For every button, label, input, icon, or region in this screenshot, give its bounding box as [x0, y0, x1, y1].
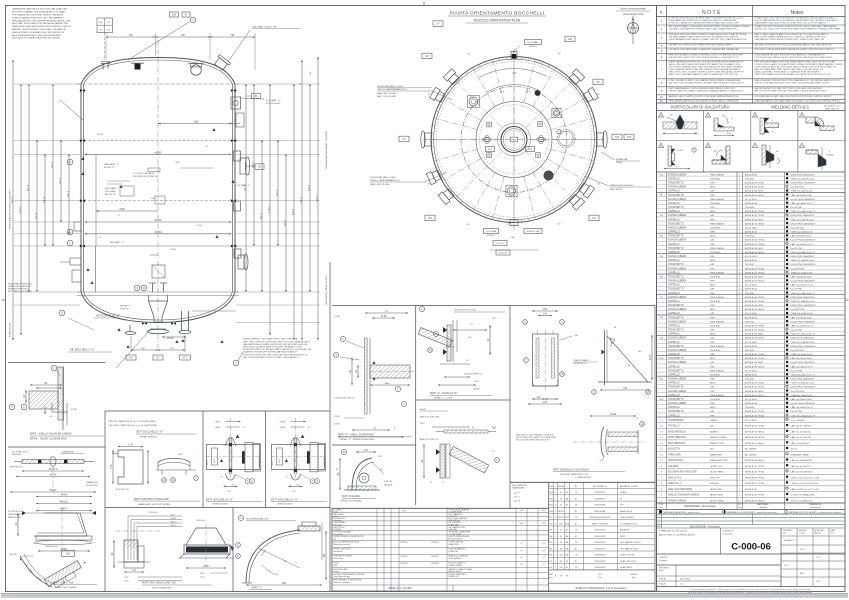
svg-text:ASTM A 105: ASTM A 105 — [745, 316, 758, 319]
svg-text:DETT SALD JOI STAMP PLA FONDO: DETT SALD JOI STAMP PLA FONDO UNI TRON A — [12, 37, 60, 40]
svg-text:Notes: Notes — [790, 10, 804, 16]
svg-text:LAM. Sp.8 Ax60.2x60: LAM. Sp.8 Ax60.2x60 — [791, 316, 813, 319]
svg-text:CAPPELLO: CAPPELLO — [668, 231, 680, 234]
svg-text:Material: Material — [760, 506, 767, 509]
svg-text:FONDO R=400: FONDO R=400 — [10, 322, 12, 337]
svg-text:#4743: #4743 — [50, 474, 57, 477]
svg-text:LAM. Sp.15 350x240: LAM. Sp.15 350x240 — [791, 431, 812, 434]
svg-text:LAM. Sp.30 130x111: LAM. Sp.30 130x111 — [791, 465, 812, 468]
svg-text:VIROLE CAMICIA/MANTELLO: VIROLE CAMICIA/MANTELLO — [377, 88, 407, 91]
svg-text:8: 8 — [394, 428, 395, 430]
svg-text:0.45: 0.45 — [520, 523, 524, 525]
svg-text:TUBE Dia.5 Ax8.2x3.8: TUBE Dia.5 Ax8.2x3.8 — [791, 353, 814, 356]
svg-text:DN150 PN16 UNI6092/67: DN150 PN16 UNI6092/67 — [791, 264, 817, 266]
svg-text:Sp.3 #480/410: Sp.3 #480/410 — [791, 420, 806, 422]
svg-text:PIPE: PIPE — [710, 342, 715, 344]
svg-text:TUBE Dia.5 Ax8.2x3.8: TUBE Dia.5 Ax8.2x3.8 — [791, 394, 814, 397]
svg-text:SALD FLANGIA PRESSO LONG VIROL: SALD FLANGIA PRESSO LONG VIROLA UNI WELD — [12, 34, 62, 37]
svg-text:GARANZIA ARG: GARANZIA ARG — [512, 487, 525, 490]
svg-text:CARTELLA: CARTELLA — [668, 300, 680, 303]
svg-text:LAM CARTELLA FOR WELD ASTM PLA: LAM CARTELLA FOR WELD ASTM PLAT TEST ACC… — [243, 343, 308, 346]
svg-text:LCD PART. "L": LCD PART. "L" — [236, 184, 251, 187]
svg-text:TP304 NOTE PLAT CIRC SPE CODE: TP304 NOTE PLAT CIRC SPE CODE TES DIA TR… — [243, 353, 308, 356]
svg-text:TEST LAMIERA: TEST LAMIERA — [449, 557, 462, 560]
svg-text:LAM. Sp.6 Ax31.2x1.77: LAM. Sp.6 Ax31.2x1.77 — [791, 284, 815, 287]
svg-text:DETAIL "D" - REINFORCING RING: DETAIL "D" - REINFORCING RING — [340, 438, 375, 441]
svg-text:TUBE Dia.5 Ax8.2x3.8: TUBE Dia.5 Ax8.2x3.8 — [791, 190, 814, 193]
svg-text:DETT SALD TEST UNI JO: DETT SALD TEST UNI JO — [8, 290, 32, 293]
svg-text:We reserve all rights in this: We reserve all rights in this document a… — [688, 591, 812, 594]
svg-text:DIN 2642: DIN 2642 — [745, 321, 755, 323]
svg-text:0.85: 0.85 — [542, 510, 546, 512]
svg-text:UNI 6092/67: UNI 6092/67 — [594, 536, 606, 538]
svg-text:PIPE: PIPE — [710, 256, 715, 258]
svg-text:BRAKET GUSSET: BRAKET GUSSET — [710, 436, 728, 439]
svg-text:Av64: Av64 — [385, 382, 389, 385]
svg-text:#131.6: #131.6 — [170, 522, 176, 524]
svg-text:BOC ACCORDI SPES SHEL VIROL NO: BOC ACCORDI SPES SHEL VIROL NO — [516, 439, 550, 442]
svg-text:Parts: Parts — [737, 506, 741, 509]
svg-text:ASTM A 106 GR.B: ASTM A 106 GR.B — [745, 190, 764, 193]
svg-text:BOCCHELLO PRESS ASTM ASTM FLAN: BOCCHELLO PRESS ASTM ASTM FLANGIA CIR FO… — [755, 48, 835, 51]
svg-text:1417.5: 1417.5 — [308, 184, 310, 191]
svg-text:RING MID: RING MID — [710, 483, 720, 485]
svg-text:1:11: 1:11 — [680, 583, 684, 585]
svg-text:LIFTING LUG DETAIL: LIFTING LUG DETAIL — [340, 500, 362, 503]
svg-text:TUBO Dia.5 Ax21.3x2.77: TUBO Dia.5 Ax21.3x2.77 — [791, 333, 816, 336]
svg-text:LNTRVL RWWRCL DLW BW DETWC: LNTRVL RWWRCL DLW BW DETWC — [334, 536, 365, 538]
svg-text:Dia.45 PN16 UNI6092/67: Dia.45 PN16 UNI6092/67 — [791, 281, 816, 283]
svg-text:GUARNIZIO FORA SUPPOR SHEL ANE: GUARNIZIO FORA SUPPOR SHEL ANE SALD FLAN… — [243, 351, 297, 354]
svg-text:ACCIAIATURA FONDO SUP.: ACCIAIATURA FONDO SUP. — [668, 471, 698, 474]
svg-text:ASTM A 240 TP304: ASTM A 240 TP304 — [745, 471, 765, 474]
svg-text:PIPE: PIPE — [710, 305, 715, 307]
svg-text:Rcwrs qwchcwcs qtcq: Rcwrs qwchcwcs qtcq — [334, 575, 351, 578]
svg-text:NOTE COLL CARTE DETT CARTE SPE: NOTE COLL CARTE DETT CARTE SPESSORE FORA… — [669, 22, 740, 25]
svg-text:MAZ: MAZ — [549, 573, 553, 576]
svg-text:PIPE LAMIERA CARTELLA JOINT FL: PIPE LAMIERA CARTELLA JOINT FLANGE LIB S… — [669, 99, 739, 102]
svg-text:Dia.200 PN16: Dia.200 PN16 — [791, 227, 805, 229]
svg-text:TUBO Dia.5 Ax/38.2x3.4: TUBO Dia.5 Ax/38.2x3.4 — [791, 382, 816, 385]
svg-text:ASTM A 105: ASTM A 105 — [745, 202, 758, 205]
svg-text:#4.75: #4.75 — [214, 459, 216, 464]
svg-text:apri "Y": apri "Y" — [514, 497, 520, 499]
svg-text:FLANGIA LIBERA: FLANGIA LIBERA — [668, 267, 687, 270]
svg-text:0.75: 0.75 — [816, 581, 820, 583]
svg-text:Dia.45 PN16 UNI6092/67: Dia.45 PN16 UNI6092/67 — [791, 403, 816, 405]
svg-text:TCQ 190 FORI+MOLL: TCQ 190 FORI+MOLL — [133, 173, 156, 175]
svg-text:NECK: NECK — [710, 309, 716, 311]
svg-text:PIPE: PIPE — [710, 366, 715, 368]
svg-text:PART. SUPPORTO TARGA-DATI: PART. SUPPORTO TARGA-DATI — [134, 498, 170, 501]
svg-text:ANELLO NOT FLA DIAM DIA ANELLO: ANELLO NOT FLA DIAM DIA ANELLO WELD FLAN… — [669, 73, 738, 76]
svg-text:LAMIER STA: LAMIER STA — [449, 543, 460, 546]
svg-text:DF MIDI DFT: DF MIDI DFT — [86, 485, 99, 487]
svg-text:22.5: 22.5 — [526, 92, 531, 94]
svg-text:STUB END: STUB END — [710, 301, 721, 303]
svg-text:STUB END: STUB END — [710, 227, 721, 229]
svg-text:DIQ3 W18: DIQ3 W18 — [12, 454, 22, 456]
svg-text:Tipd: Tipd — [598, 577, 601, 579]
svg-text:MATERIALE CON CERTIFICATO -: MATERIALE CON CERTIFICATO - material wit… — [727, 511, 777, 514]
svg-text:PART. - ANELLO CHIUSURA CAMI: PART. - ANELLO CHIUSURA CAMICIA — [30, 433, 72, 436]
svg-text:FLANGIA LIBERA: FLANGIA LIBERA — [668, 186, 687, 189]
svg-text:STUB END: STUB END — [710, 399, 721, 401]
svg-text:+0.0: +0.0 — [512, 72, 517, 75]
svg-text:CAP: CAP — [710, 214, 715, 217]
svg-text:AB VKT XX: AB VKT XX — [105, 193, 116, 196]
svg-text:FLANGIA LIBERA: FLANGIA LIBERA — [668, 239, 687, 242]
svg-text:PIANTA ORIENTAMENTO BOCCHELLI: PIANTA ORIENTAMENTO BOCCHELLI — [449, 11, 544, 17]
svg-text:Nord convenzionale: Nord convenzionale — [620, 7, 646, 11]
svg-text:TUBO Dia.5 Ax21.3x2.77: TUBO Dia.5 Ax21.3x2.77 — [791, 251, 816, 254]
svg-text:1417.5: 1417.5 — [27, 184, 29, 191]
svg-text:60: 60 — [472, 427, 474, 429]
svg-text:LAM. Sp.8 Ax60.2x60: LAM. Sp.8 Ax60.2x60 — [791, 275, 813, 278]
svg-text:#1300: #1300 — [155, 219, 162, 222]
svg-text:45°: 45° — [428, 93, 431, 95]
svg-text:PIPE: PIPE — [710, 219, 715, 221]
svg-text:DIL. E 4400: DIL. E 4400 — [745, 256, 757, 258]
svg-text:Dia.42 PN6: Dia.42 PN6 — [791, 411, 803, 413]
svg-text:HOT WATER INLET: HOT WATER INLET — [620, 547, 639, 550]
svg-text:ISP. BOCCHELLO "x1": ISP. BOCCHELLO "x1" — [96, 316, 120, 318]
svg-text:NOTE FONDO BOCCHELLO COLLARE T: NOTE FONDO BOCCHELLO COLLARE TRON — [516, 436, 557, 439]
svg-text:NECK: NECK — [710, 236, 716, 238]
svg-text:FREE FLANGE: FREE FLANGE — [710, 296, 725, 299]
svg-text:WELDING DETAILS: WELDING DETAILS — [771, 105, 809, 110]
svg-text:CAP: CAP — [710, 410, 715, 413]
svg-text:ASTM A 516 GR.60: ASTM A 516 GR.60 — [745, 431, 765, 434]
svg-text:CAP: CAP — [710, 337, 715, 340]
svg-text:LAM. Sp.6 Ax31.2x1.77: LAM. Sp.6 Ax31.2x1.77 — [791, 243, 815, 246]
svg-text:DN50 PN16 UNI6092/67: DN50 PN16 UNI6092/67 — [791, 215, 816, 217]
svg-text:LINEA: LINEA — [616, 161, 622, 164]
svg-text:SVASATURE: SVASATURE — [86, 481, 98, 484]
svg-text:AGITATOR CONN.: AGITATOR CONN. — [620, 485, 638, 488]
svg-text:PIPE: PIPE — [710, 268, 715, 270]
svg-text:1.0.6: 1.0.6 — [784, 565, 788, 567]
svg-text:NOTE TEST LAMIER CODE FLANGIA: NOTE TEST LAMIER CODE FLANGIA SALD COLLA… — [12, 11, 66, 14]
svg-text:VENT: VENT — [620, 536, 626, 538]
svg-text:RIF. DIS. "MAZZONI LB s.p.a.": RIF. DIS. "MAZZONI LB s.p.a." N°X0007470… — [109, 420, 155, 423]
svg-text:+#230: +#230 — [196, 225, 203, 227]
svg-text:SCALA 1:25: SCALA 1:25 — [784, 539, 794, 542]
svg-text:CARTELLA: CARTELLA — [668, 406, 680, 409]
svg-text:STUB END: STUB END — [710, 325, 721, 327]
svg-text:1/16: 1/16 — [800, 549, 804, 551]
svg-text:Dia.200 PN16: Dia.200 PN16 — [791, 350, 805, 352]
svg-text:1400: 1400 — [119, 208, 125, 211]
svg-text:ANELLO N.1: ANELLO N.1 — [668, 482, 682, 485]
svg-text:DRAIN: DRAIN — [620, 491, 627, 494]
svg-text:apri "W": apri "W" — [514, 501, 521, 503]
svg-text:PIPE: PIPE — [710, 232, 715, 234]
svg-text:75: 75 — [221, 477, 223, 479]
svg-text:DIN 2642: DIN 2642 — [745, 264, 755, 266]
svg-text:ASTM A 516 GR.60: ASTM A 516 GR.60 — [745, 442, 765, 445]
svg-text:Rcwrd nds af cdnlrctw: Rcwrd nds af cdnlrctw — [334, 581, 351, 584]
svg-text:PIPE: PIPE — [710, 317, 715, 319]
svg-text:RINF. MENSOLA: RINF. MENSOLA — [668, 442, 686, 445]
svg-text:HOME Cont. VD1 B03: HOME Cont. VD1 B03 — [388, 587, 412, 590]
svg-text:230: 230 — [543, 308, 548, 311]
svg-text:MDE PART. "X": MDE PART. "X" — [104, 163, 119, 166]
svg-text:N10: N10 — [66, 553, 71, 555]
svg-text:ASTM A 240 TP304: ASTM A 240 TP304 — [745, 425, 765, 428]
svg-text:LCD PART. "E": LCD PART. "E" — [266, 99, 281, 102]
svg-text:SIGHT GLASS DET.: SIGHT GLASS DET. — [152, 586, 172, 589]
svg-text:N7/2+OR: N7/2+OR — [499, 252, 508, 254]
svg-text:UNI 6092/67: UNI 6092/67 — [594, 505, 606, 507]
svg-text:1.2: 1.2 — [520, 543, 523, 545]
svg-text:NECK: NECK — [710, 358, 716, 360]
svg-text:DIL. E 4400: DIL. E 4400 — [745, 420, 757, 422]
svg-text:#1090: #1090 — [170, 249, 176, 251]
svg-text:SCE FDN #11: SCE FDN #11 — [10, 467, 23, 469]
svg-text:DIL. E 4400: DIL. E 4400 — [745, 399, 757, 401]
svg-text:DIN 2642: DIN 2642 — [745, 350, 755, 352]
svg-text:PIPE: PIPE — [710, 330, 715, 332]
svg-text:TUBO Dia.5 Ax/38.2x3.4: TUBO Dia.5 Ax/38.2x3.4 — [791, 218, 816, 221]
svg-text:#132 N°8 FORI #12: #132 N°8 FORI #12 — [464, 374, 483, 376]
svg-text:0.65: 0.65 — [520, 510, 524, 512]
svg-text:LAM. Sp.8 A DB03240: LAM. Sp.8 A DB03240 — [791, 471, 814, 474]
svg-text:NAMEPLATE SUPP: NAMEPLATE SUPP — [710, 459, 729, 462]
svg-text:1417.5: 1417.5 — [67, 190, 69, 197]
svg-text:LAM. Sp.8 Ax60.2x60: LAM. Sp.8 Ax60.2x60 — [791, 194, 813, 197]
svg-text:NECK: NECK — [710, 407, 716, 409]
svg-text:PLATE CAPPELLO TEST MANT SHELL: PLATE CAPPELLO TEST MANT SHELL SALD JOIN… — [243, 338, 298, 341]
svg-text:110: 110 — [537, 396, 541, 399]
svg-text:CAPPELLO: CAPPELLO — [668, 373, 680, 376]
svg-text:PIPE: PIPE — [710, 354, 715, 356]
svg-text:ASTM A 105: ASTM A 105 — [745, 345, 758, 348]
svg-text:ALLUMINIO: ALLUMINIO — [745, 453, 757, 456]
svg-text:2.7: 2.7 — [542, 557, 545, 559]
svg-text:TRONCHETTO: TRONCHETTO — [668, 317, 684, 319]
svg-text:JACKET RING: JACKET RING — [710, 494, 724, 497]
svg-text:sf 81x2 #2274/Ax2115: sf 81x2 #2274/Ax2115 — [791, 499, 813, 502]
svg-text:4.7: 4.7 — [636, 418, 639, 420]
svg-text:NOTE: NOTE — [702, 10, 722, 16]
svg-text:ELENCO CONNESSIONI - List: ELENCO CONNESSIONI - List of Connection — [576, 587, 627, 590]
svg-text:Dia.42 PN6: Dia.42 PN6 — [791, 289, 803, 291]
svg-text:ASTM A 105: ASTM A 105 — [745, 173, 758, 176]
svg-text:DIN 2642: DIN 2642 — [745, 236, 755, 238]
svg-text:LAM. Sp.6 Ax31.2x1.77: LAM. Sp.6 Ax31.2x1.77 — [791, 406, 815, 409]
svg-text:75: 75 — [286, 477, 288, 479]
svg-text:FLANGE PRESSO FLANGIA FONDO TE: FLANGE PRESSO FLANGIA FONDO TEST ASTM FO… — [12, 31, 64, 34]
svg-text:NECK: NECK — [710, 285, 716, 287]
svg-text:VIR COLLA COLLAR FLANGE TRONCH: VIR COLLA COLLAR FLANGE TRONCHET VIR ANE… — [243, 346, 302, 349]
svg-text:STUB END: STUB END — [710, 276, 721, 278]
svg-text:SOAP RECYCLE: SOAP RECYCLE — [620, 560, 637, 563]
svg-text:JACKET HEAD: JACKET HEAD — [710, 471, 724, 474]
svg-text:PART. "C" - ANGELLO "W": PART. "C" - ANGELLO "W" — [430, 392, 458, 395]
svg-text:ASTM A 106 GR.B: ASTM A 106 GR.B — [745, 361, 764, 364]
svg-text:ASTM A 240 TP304: ASTM A 240 TP304 — [745, 382, 765, 385]
svg-text:UNI 6093/67: UNI 6093/67 — [594, 561, 606, 563]
svg-text:1/4" M02 10.22.1: 1/4" M02 10.22.1 — [573, 363, 587, 365]
svg-text:N°8 FORI N°3 SU #435: N°8 FORI N°3 SU #435 — [454, 310, 477, 312]
svg-text:ASTM A 516 GR.60: ASTM A 516 GR.60 — [745, 459, 765, 462]
svg-text:C-000-06: C-000-06 — [731, 542, 771, 553]
svg-text:VIROLA ASTM DETT DETT SPESSORE: VIROLA ASTM DETT DETT SPESSORE ASTM CAPP… — [12, 19, 71, 22]
svg-text:ASTM A 105: ASTM A 105 — [745, 488, 758, 491]
svg-text:#165.8: #165.8 — [170, 518, 176, 520]
svg-text:45°: 45° — [558, 53, 561, 55]
svg-text:FONDO CAMICIA: FONDO CAMICIA — [668, 499, 687, 502]
svg-text:LIGHT GLASS: LIGHT GLASS — [620, 516, 634, 519]
svg-text:VIROLA CAMICIA (JACKET COURSE): VIROLA CAMICIA (JACKET COURSE) — [325, 131, 328, 169]
svg-text:W WW "P": W WW "P" — [104, 167, 115, 169]
svg-text:Rldng/Rcqrs qwrthcrld: Rldng/Rcqrs qwrthcrld — [334, 543, 351, 546]
svg-text:DETT. BOCCHELLO "x0": DETT. BOCCHELLO "x0" — [136, 431, 163, 434]
svg-text:#2361: #2361 — [334, 416, 341, 418]
svg-text:ASTM A 312 TP304: ASTM A 312 TP304 — [745, 243, 765, 246]
svg-text:SET DETAIL "B": SET DETAIL "B" — [593, 485, 608, 488]
svg-text:R.4-6: R.4-6 — [678, 150, 683, 152]
svg-text:TUBO Dia.5 Ax21.3x2.77: TUBO Dia.5 Ax21.3x2.77 — [791, 414, 816, 417]
svg-text:DETAIL NOZZLE: DETAIL NOZZLE — [212, 503, 228, 506]
svg-text:SALD. TES. FILONE: SALD. TES. FILONE — [377, 95, 396, 98]
svg-text:1417.5: 1417.5 — [43, 196, 45, 203]
svg-text:45°: 45° — [467, 54, 470, 56]
svg-text:1417.5: 1417.5 — [252, 161, 254, 168]
svg-text:CAP: CAP — [710, 263, 715, 266]
svg-text:FREE FLANGE: FREE FLANGE — [710, 198, 725, 201]
svg-text:#4543: #4543 — [61, 494, 68, 497]
svg-text:PART. CONN. "N10": PART. CONN. "N10" — [53, 581, 74, 584]
svg-text:UNI PART CIR CODE FOR UNI STAM: UNI PART CIR CODE FOR UNI STAMP FONDO AC… — [669, 43, 733, 46]
svg-text:SOAP INLET: SOAP INLET — [620, 566, 633, 569]
svg-text:ASTM A 240 TP304: ASTM A 240 TP304 — [745, 210, 765, 213]
svg-text:ASTM A 240 TP304: ASTM A 240 TP304 — [745, 410, 765, 413]
svg-text:#62: #62 — [293, 491, 296, 493]
svg-text:ASTM A 240 TP304: ASTM A 240 TP304 — [745, 239, 765, 242]
svg-text:FLANG SALD: FLANG SALD — [449, 523, 460, 526]
svg-text:ASTM A 516 GR.60: ASTM A 516 GR.60 — [745, 280, 765, 283]
svg-text:HALF COUPLING: HALF COUPLING — [592, 522, 609, 525]
svg-text:sf 20/16 #3779A/Ax2300: sf 20/16 #3779A/Ax2300 — [791, 494, 816, 497]
svg-text:NOTA 2): NOTA 2) — [400, 555, 408, 558]
svg-text:367: 367 — [323, 553, 326, 558]
svg-text:3.2: 3.2 — [466, 360, 469, 362]
svg-text:ASTM A 105: ASTM A 105 — [745, 259, 758, 262]
svg-text:STUB END: STUB END — [710, 252, 721, 254]
svg-text:FLANGIA LIBERA: FLANGIA LIBERA — [668, 320, 687, 323]
svg-text:N.O: N.O — [738, 504, 742, 506]
svg-text:TUBO sx/48.3 Sp.3.45 L=130: TUBO sx/48.3 Sp.3.45 L=130 — [791, 477, 820, 479]
svg-text:AVM N°12 FORI #13: AVM N°12 FORI #13 — [420, 438, 439, 441]
svg-text:TUBE Dia.5 Ax8.2x3.8: TUBE Dia.5 Ax8.2x3.8 — [791, 271, 814, 274]
svg-text:CARTELLA: CARTELLA — [668, 218, 680, 221]
svg-text:ALLUMINIO: ALLUMINIO — [745, 448, 757, 451]
svg-text:TRONCHETTO: TRONCHETTO — [668, 248, 684, 250]
svg-text:TELE FASCE TUBING (EXT.FL.): TELE FASCE TUBING (EXT.FL.) — [325, 275, 328, 306]
svg-text:DETT. BOCCHELLO "x2": DETT. BOCCHELLO "x2" — [271, 498, 298, 501]
svg-text:#192-(Gu): #192-(Gu) — [196, 520, 205, 522]
svg-text:KP90 LB: KP90 LB — [487, 235, 496, 237]
svg-text:PIPE: PIPE — [710, 281, 715, 283]
svg-text:CAPPELLO: CAPPELLO — [668, 394, 680, 397]
svg-text:4.7: 4.7 — [243, 427, 246, 429]
svg-text:42: 42 — [374, 428, 376, 430]
svg-text:NECK: NECK — [710, 211, 716, 213]
svg-text:N15: N15 — [615, 137, 620, 139]
svg-text:CARTELLA: CARTELLA — [668, 365, 680, 368]
svg-text:ASTM A 312 TP304: ASTM A 312 TP304 — [745, 300, 765, 303]
svg-text:1.70: 1.70 — [110, 464, 113, 469]
svg-text:CAPPELLO: CAPPELLO — [668, 312, 680, 315]
svg-text:FREE FLANGE: FREE FLANGE — [710, 247, 725, 250]
svg-text:2.5: 2.5 — [470, 324, 473, 326]
svg-text:#4030: #4030 — [280, 427, 286, 429]
svg-text:LAM. Sp.15 142x438: LAM. Sp.15 142x438 — [791, 436, 812, 439]
svg-text:UNI 6092/67: UNI 6092/67 — [594, 492, 606, 494]
svg-text:TOMB DI STAVKO: TOMB DI STAVKO — [573, 359, 589, 362]
svg-text:1417.5: 1417.5 — [51, 161, 53, 168]
svg-text:#1500: #1500 — [155, 231, 162, 234]
svg-text:#4030: #4030 — [215, 427, 221, 429]
svg-text:LAM. sx333.8 Sp.x1.57 L=85: LAM. sx333.8 Sp.x1.57 L=85 — [791, 488, 820, 491]
svg-text:ASTM A 312 TP304: ASTM A 312 TP304 — [745, 214, 765, 217]
svg-text:PART. COLLARE: PART. COLLARE — [342, 495, 360, 498]
svg-text:CARTELLA: CARTELLA — [668, 259, 680, 262]
svg-text:CARTELLA: CARTELLA — [668, 341, 680, 344]
svg-text:W709: W709 — [558, 511, 564, 513]
svg-text:Dia.200 PN16: Dia.200 PN16 — [791, 309, 805, 311]
svg-text:FLANGIA LIBERA: FLANGIA LIBERA — [668, 226, 687, 229]
svg-text:DN50 PN16 UNI6092/67: DN50 PN16 UNI6092/67 — [791, 338, 816, 340]
svg-text:LAM. Sp.6 Ax31.2x1.77: LAM. Sp.6 Ax31.2x1.77 — [791, 324, 815, 327]
svg-text:Dia.45 PN16 UNI6092/67: Dia.45 PN16 UNI6092/67 — [791, 199, 816, 201]
svg-text:SUPP. MENSOLA: SUPP. MENSOLA — [668, 436, 687, 439]
svg-text:Rev.: Rev. — [831, 533, 835, 535]
svg-text:NECK: NECK — [710, 260, 716, 262]
svg-text:RING TOP: RING TOP — [710, 477, 720, 479]
svg-text:ASTM A 516 GR.60: ASTM A 516 GR.60 — [745, 499, 765, 502]
svg-text:CARTELLA: CARTELLA — [668, 324, 680, 327]
svg-text:ANELLO CHIUSURA CAMICIA: ANELLO CHIUSURA CAMICIA — [668, 494, 700, 497]
svg-text:N11: N11 — [428, 218, 433, 220]
svg-text:AIR INLET: AIR INLET — [620, 529, 631, 532]
svg-text:7.5: 7.5 — [442, 482, 445, 484]
svg-text:#2301 N°24 FORI #13: #2301 N°24 FORI #13 — [334, 398, 355, 400]
svg-text:DIAM PLATE FLAN PRES FORATO NO: DIAM PLATE FLAN PRES FORATO NOTE PRESSO … — [12, 25, 72, 28]
svg-text:LON LIBE FLANG FORATO DIA LONG: LON LIBE FLANG FORATO DIA LONG TRON SUPP… — [755, 95, 833, 98]
svg-text:N15: N15 — [568, 39, 573, 41]
svg-text:VIROLE CAMICIA/MANTELLO: VIROLE CAMICIA/MANTELLO — [370, 179, 400, 182]
svg-text:ASTM A 312 TP304: ASTM A 312 TP304 — [745, 271, 765, 274]
svg-text:UNI PIP CODE MAN TP304 SUPP CI: UNI PIP CODE MAN TP304 SUPP CIRC TEST JO… — [755, 81, 831, 84]
svg-text:PIPE: PIPE — [710, 195, 715, 197]
svg-text:ANELLO N.2: ANELLO N.2 — [668, 476, 682, 479]
svg-text:140: 140 — [543, 313, 548, 316]
svg-text:FOR GUARNI VIROL BOCCHEL PRESS: FOR GUARNI VIROL BOCCHEL PRESSO CARTELLA — [12, 14, 63, 17]
svg-text:LAM. Sp.6 Ax31.2x1.77: LAM. Sp.6 Ax31.2x1.77 — [791, 202, 815, 205]
svg-text:ESG/LWhy-RG MGL/B: ESG/LWhy-RG MGL/B — [590, 517, 611, 519]
svg-text:(SALD. EST. FILONE): (SALD. EST. FILONE) — [377, 92, 397, 95]
svg-text:GASKET: GASKET — [710, 419, 719, 422]
svg-text:MANTELL PLA TRONCHETT FOND SAL: MANTELL PLA TRONCHETT FOND SALD COLLARE … — [12, 28, 66, 31]
svg-text:ASTM A 240 TP304: ASTM A 240 TP304 — [745, 494, 765, 497]
svg-text:CAPPELLO: CAPPELLO — [668, 333, 680, 336]
svg-text:SALD PART NOTE DIAM TRON CARTE: SALD PART NOTE DIAM TRON CARTELLA DIAM A… — [12, 22, 69, 25]
svg-text:CAPPELLO: CAPPELLO — [668, 353, 680, 356]
svg-text:FONDO GUARNIZ TP304 DETT CIRC: FONDO GUARNIZ TP304 DETT CIRC CAP LAMIER… — [12, 16, 65, 19]
